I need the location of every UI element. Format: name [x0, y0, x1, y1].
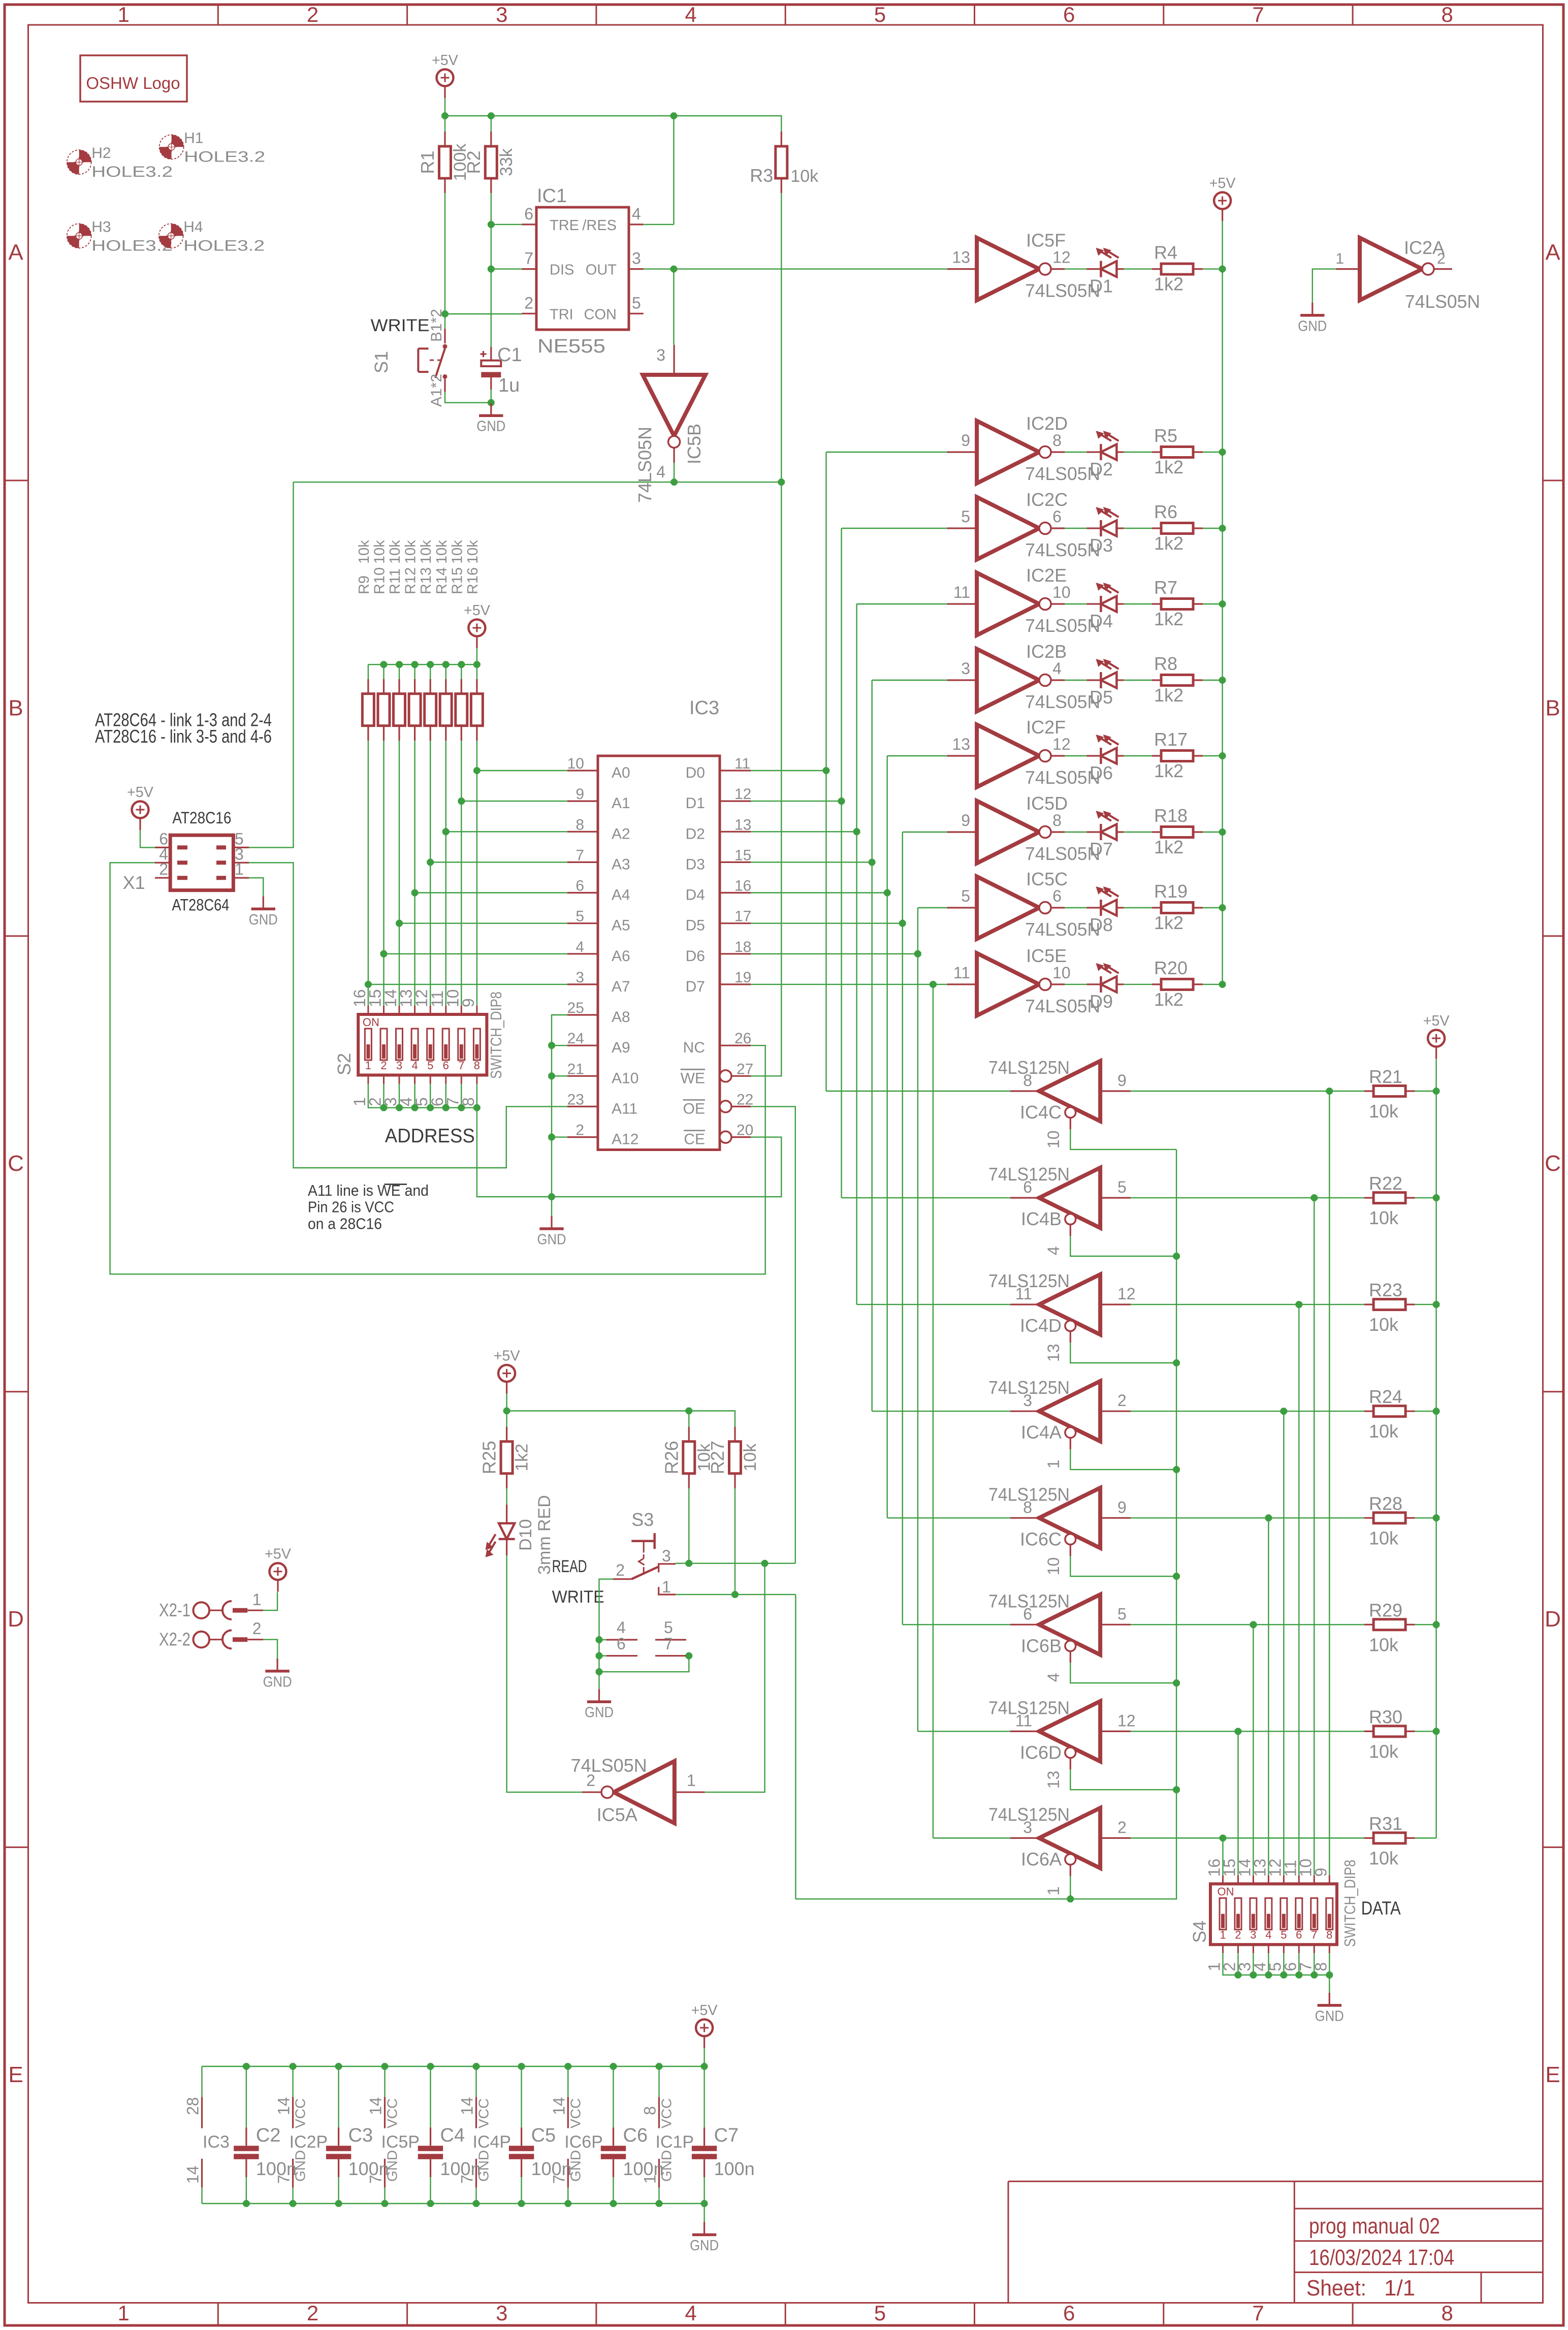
wire R22 to +5V rail — [1415, 1197, 1436, 1198]
wire IC2C input from data bus — [842, 528, 947, 529]
wire D2 net — [751, 604, 857, 1304]
junction rail R5 — [1219, 449, 1226, 456]
svg-text:9: 9 — [459, 998, 477, 1007]
svg-text:S4: S4 — [1189, 1921, 1210, 1943]
wire IC5C input from data bus — [918, 907, 947, 908]
svg-text:74LS125N: 74LS125N — [988, 1590, 1070, 1611]
svg-text:R10: R10 — [372, 567, 388, 594]
wire X1 pin1 to GND — [249, 878, 263, 896]
resistor R19 1k2 — [1152, 881, 1203, 933]
svg-text:5: 5 — [1281, 1929, 1287, 1941]
wire D6 to R17 to rail — [1065, 755, 1223, 756]
svg-text:3: 3 — [632, 249, 641, 268]
svg-text:A: A — [1545, 240, 1560, 265]
junction top C2 — [243, 2063, 250, 2070]
wire address column A3 — [430, 741, 567, 1006]
wire +5V bus R25 R26 R27 — [507, 1394, 735, 1427]
wire IC4A enable — [1070, 1449, 1176, 1470]
svg-text:IC2E: IC2E — [1026, 565, 1067, 586]
inverter IC2D 74LS05N — [947, 413, 1101, 484]
wire OUT net — [644, 268, 947, 269]
svg-text:1k2: 1k2 — [1154, 760, 1183, 781]
svg-text:10k: 10k — [1369, 1848, 1399, 1869]
svg-text:GND: GND — [263, 1674, 292, 1690]
svg-text:74LS05N: 74LS05N — [1025, 615, 1100, 636]
hole H1 — [159, 130, 265, 165]
wire C1 to GND — [491, 390, 492, 403]
svg-text:R15: R15 — [449, 567, 465, 594]
switch S4 SWITCH_DIP8 DATA — [1189, 1859, 1359, 1971]
wire R23 to +5V rail — [1415, 1304, 1436, 1305]
svg-text:13: 13 — [1044, 1771, 1063, 1789]
junction bottom C5 — [518, 2200, 525, 2207]
svg-text:10k: 10k — [372, 540, 388, 564]
wire IC2F input from data bus — [887, 755, 947, 756]
svg-text:2: 2 — [252, 1619, 262, 1638]
svg-text:74LS05N: 74LS05N — [634, 427, 655, 503]
svg-text:10k: 10k — [465, 540, 481, 564]
junction D5 — [899, 920, 906, 927]
LED D8 — [1086, 886, 1124, 935]
junction D0 — [823, 767, 830, 774]
svg-text:OUT: OUT — [586, 262, 617, 278]
svg-text:A: A — [8, 240, 23, 265]
svg-text:4: 4 — [1044, 1673, 1063, 1682]
svg-text:5: 5 — [427, 1059, 433, 1072]
wire S4 column 11 — [1253, 1624, 1254, 1875]
junction S2 bottom — [380, 1104, 388, 1111]
ground below IC3 — [537, 1197, 566, 1248]
wire IC6A input net — [1131, 1837, 1364, 1838]
svg-text:10k: 10k — [790, 167, 819, 186]
svg-text:IC6A: IC6A — [1021, 1849, 1062, 1870]
ground at X2 — [263, 1654, 292, 1690]
switch S1 WRITE — [371, 309, 447, 407]
resistor R20 1k2 — [1152, 957, 1203, 1010]
junction rail R24 — [1433, 1408, 1440, 1415]
wire R29 to +5V rail — [1415, 1624, 1436, 1625]
buffer IC4C 74LS125N — [988, 1057, 1131, 1148]
svg-text:H2: H2 — [91, 145, 111, 162]
junction rail R20 — [1219, 981, 1226, 988]
svg-text:IC1: IC1 — [537, 185, 567, 207]
svg-text:10k: 10k — [1369, 1421, 1399, 1442]
svg-text:1k2: 1k2 — [1154, 837, 1183, 857]
wire D1 to R4 to rail — [1065, 268, 1223, 269]
svg-text:8: 8 — [1326, 1929, 1332, 1941]
svg-text:3: 3 — [496, 2301, 507, 2325]
buffer IC6C 74LS125N — [988, 1484, 1131, 1575]
svg-text:7: 7 — [664, 1635, 673, 1653]
svg-text:3mm RED: 3mm RED — [535, 1495, 554, 1575]
svg-text:6: 6 — [1063, 3, 1075, 26]
junction R26/S3 — [686, 1560, 693, 1567]
junction at R1 top — [441, 112, 449, 119]
wire IC5A input to S3 pin3 net — [705, 1563, 765, 1793]
svg-text:IC6C: IC6C — [1020, 1528, 1062, 1549]
svg-text:16/03/2024 17:04: 16/03/2024 17:04 — [1309, 2245, 1454, 2270]
svg-text:74LS125N: 74LS125N — [988, 1804, 1070, 1825]
svg-text:7: 7 — [1252, 3, 1264, 26]
wire S4 column 16 — [1329, 1091, 1330, 1875]
wire +5V bus to R1 R2 R3 — [445, 98, 781, 225]
svg-text:GND: GND — [690, 2238, 719, 2254]
svg-text:10k: 10k — [1369, 1634, 1399, 1655]
svg-text:10k: 10k — [741, 1443, 760, 1472]
svg-text:R8: R8 — [1154, 653, 1177, 674]
wire OUT down to IC5B — [673, 269, 674, 345]
junction S4 bottom — [1296, 1971, 1303, 1978]
svg-text:2: 2 — [307, 3, 318, 26]
svg-text:19: 19 — [734, 969, 751, 986]
junction S4 bottom — [1265, 1971, 1272, 1978]
svg-text:R3: R3 — [750, 165, 773, 186]
wire TRI pin — [445, 313, 522, 314]
junction rail R18 — [1219, 828, 1226, 836]
junction A1 tap — [458, 797, 465, 805]
svg-text:R14: R14 — [434, 567, 450, 594]
junction bottom IC2P — [290, 2200, 297, 2207]
junction rail R21 — [1433, 1088, 1440, 1095]
wire IC6B enable — [1070, 1663, 1176, 1683]
svg-text:IC5B: IC5B — [684, 424, 705, 464]
wire IC6B input net — [1131, 1624, 1364, 1625]
junction S4 bottom — [1281, 1971, 1288, 1978]
power pins IC3 28/14 — [184, 2066, 230, 2204]
svg-text:13: 13 — [952, 248, 971, 267]
svg-text:C4: C4 — [440, 2125, 465, 2146]
svg-text:D4: D4 — [1090, 611, 1113, 631]
svg-text:100n: 100n — [623, 2158, 664, 2179]
junction rail R29 — [1433, 1621, 1440, 1629]
junction S4 tap IC6A — [1220, 1835, 1227, 1842]
svg-text:+5V: +5V — [464, 602, 491, 619]
svg-text:12: 12 — [1052, 248, 1071, 267]
svg-text:22: 22 — [737, 1091, 753, 1108]
wire WE drop to IC3 pin 27 — [751, 482, 781, 1076]
inverter IC5E 74LS05N — [947, 945, 1101, 1016]
junction IC6A enable — [1067, 1896, 1074, 1903]
resistor R31 10k — [1364, 1813, 1415, 1869]
svg-text:18: 18 — [734, 939, 751, 955]
svg-text:SWITCH_DIP8: SWITCH_DIP8 — [487, 992, 505, 1079]
junction bottom IC6P — [565, 2200, 572, 2207]
svg-text:IC2P: IC2P — [290, 2132, 328, 2152]
wire IC2B input from data bus — [872, 680, 947, 681]
svg-text:9: 9 — [1117, 1498, 1127, 1516]
svg-text:A11 line is WE and: A11 line is WE and — [308, 1182, 429, 1199]
connector X2-1 — [159, 1590, 263, 1620]
svg-text:D7: D7 — [686, 978, 705, 995]
svg-text:2: 2 — [1235, 1929, 1241, 1941]
wire IC6B output to data bus — [903, 1624, 1010, 1625]
svg-text:4: 4 — [1052, 659, 1062, 678]
svg-text:R7: R7 — [1154, 577, 1177, 598]
svg-text:15: 15 — [734, 847, 751, 864]
buffer IC4D 74LS125N — [988, 1270, 1136, 1362]
svg-text:5: 5 — [961, 507, 970, 526]
svg-text:A5: A5 — [612, 917, 630, 934]
svg-text:R13: R13 — [418, 567, 434, 594]
svg-text:74LS05N: 74LS05N — [571, 1755, 647, 1776]
svg-text:100n: 100n — [714, 2158, 755, 2179]
svg-text:IC2F: IC2F — [1026, 717, 1066, 738]
svg-text:B1*2: B1*2 — [428, 309, 445, 342]
junction bottom IC1P — [656, 2200, 663, 2207]
LED D1 — [1086, 248, 1124, 297]
svg-text:VCC: VCC — [567, 2098, 583, 2128]
junction R26 top — [686, 1408, 693, 1415]
junction R25 top — [503, 1408, 510, 1415]
wire X1 pin5 to WRITE bus — [249, 482, 294, 847]
ground at X1 — [249, 896, 278, 928]
junction D1 — [838, 797, 845, 805]
svg-text:9: 9 — [575, 786, 584, 803]
power +5V LED rail — [1209, 175, 1236, 221]
resistor R28 10k — [1364, 1493, 1415, 1548]
svg-text:12: 12 — [734, 786, 751, 803]
hole H4 — [159, 218, 265, 254]
wire address column A7 — [368, 741, 567, 1006]
svg-text:9: 9 — [961, 431, 970, 450]
svg-text:A8: A8 — [612, 1009, 630, 1026]
jumper X1 AT28C16/AT28C64 link — [123, 809, 249, 914]
svg-text:IC5P: IC5P — [381, 2132, 420, 2152]
wire IC6A output to data bus — [933, 1837, 1010, 1838]
wire IC6D enable — [1070, 1769, 1176, 1790]
wire D3 net — [751, 680, 872, 1411]
wire IC6D input net — [1131, 1731, 1364, 1732]
junction Rnet top R16 — [473, 661, 481, 668]
power +5V at X1 — [127, 784, 154, 830]
wire IC5D input from data bus — [903, 832, 947, 833]
svg-text:HOLE3.2: HOLE3.2 — [91, 164, 173, 180]
svg-text:2: 2 — [524, 294, 533, 312]
svg-text:74LS125N: 74LS125N — [988, 1057, 1070, 1078]
wire S4 column 15 — [1314, 1198, 1315, 1875]
svg-text:10k: 10k — [387, 540, 403, 564]
svg-text:B: B — [1545, 695, 1560, 720]
junction top C5 — [518, 2063, 525, 2070]
resistor R30 10k — [1364, 1706, 1415, 1762]
svg-text:2: 2 — [1117, 1818, 1127, 1837]
inverter IC5B 74LS05N (pointing down) — [634, 345, 706, 503]
junction bottom C7 — [701, 2200, 708, 2207]
resistor R3 10k — [750, 132, 819, 193]
junction IC5B/bus — [670, 478, 678, 486]
svg-text:6: 6 — [1052, 507, 1062, 526]
junction enable bus — [1173, 1359, 1180, 1366]
wire decoupling bottom bus — [202, 2203, 705, 2204]
wire R31 to +5V rail — [1415, 1837, 1436, 1838]
junction R3/bus — [778, 478, 785, 486]
resistor R21 10k — [1364, 1066, 1415, 1122]
junction S4 tap IC6B — [1250, 1621, 1257, 1629]
svg-text:DATA: DATA — [1361, 1898, 1401, 1919]
connector X2-2 — [159, 1619, 263, 1650]
svg-text:R20: R20 — [1154, 957, 1188, 978]
junction Rnet top R12 — [411, 661, 419, 668]
junction Rnet top R11 — [396, 661, 403, 668]
junction enable bus — [1173, 1786, 1180, 1794]
wire D6 net — [751, 908, 918, 1731]
junction enable bus — [1173, 1679, 1180, 1686]
junction bottom C2 — [243, 2200, 250, 2207]
svg-text:GND: GND — [537, 1232, 566, 1248]
svg-text:74LS05N: 74LS05N — [1025, 691, 1100, 712]
svg-text:C: C — [1545, 1151, 1561, 1176]
svg-text:10k: 10k — [356, 540, 372, 564]
wire IC4D input net — [1131, 1304, 1364, 1305]
svg-text:3: 3 — [396, 1059, 402, 1072]
svg-text:AT28C64: AT28C64 — [172, 896, 229, 914]
svg-text:10k: 10k — [1369, 1207, 1399, 1228]
svg-text:28: 28 — [184, 2097, 202, 2115]
junction bottom IC4P — [473, 2200, 480, 2207]
svg-text:5: 5 — [632, 294, 641, 312]
junction enable bus — [1173, 1253, 1180, 1260]
svg-text:14: 14 — [458, 2097, 476, 2115]
wire S2 bottom bus — [368, 1084, 477, 1108]
svg-text:100n: 100n — [531, 2158, 572, 2179]
svg-text:5: 5 — [664, 1618, 673, 1637]
svg-text:A2: A2 — [612, 825, 630, 842]
svg-text:ON: ON — [363, 1016, 379, 1029]
junction S4 bottom — [1250, 1971, 1257, 1978]
junction S4 tap IC4A — [1281, 1408, 1288, 1415]
svg-text:6: 6 — [617, 1635, 626, 1653]
junction at R2 top — [488, 112, 495, 119]
junction Rnet top R14 — [442, 661, 450, 668]
svg-text:R16: R16 — [465, 567, 481, 594]
power +5V at R network — [464, 602, 491, 648]
svg-text:4: 4 — [1044, 1246, 1063, 1255]
svg-text:6: 6 — [1296, 1929, 1302, 1941]
wire address column A5 — [399, 741, 567, 1006]
svg-text:4: 4 — [685, 2301, 696, 2325]
junction rail R19 — [1219, 904, 1226, 911]
S3 jumper pins 4-7 — [606, 1618, 686, 1656]
junction A4 tap — [411, 889, 419, 897]
svg-text:6: 6 — [1063, 2301, 1075, 2325]
svg-text:4: 4 — [685, 3, 696, 26]
svg-text:14: 14 — [367, 2097, 385, 2115]
resistor R2 33k — [463, 132, 516, 193]
wire R3 down to bus — [781, 193, 782, 482]
svg-text:5: 5 — [575, 908, 584, 925]
svg-text:14: 14 — [184, 2165, 202, 2184]
svg-text:R12: R12 — [403, 567, 419, 594]
wire address column A6 — [384, 741, 568, 1006]
svg-text:3: 3 — [961, 659, 970, 678]
wire WRITE bus — [294, 482, 782, 483]
LED D4 — [1086, 583, 1124, 631]
power +5V supply P1 — [432, 52, 459, 98]
svg-text:74LS125N: 74LS125N — [988, 1484, 1070, 1505]
svg-text:74LS125N: 74LS125N — [988, 1164, 1070, 1185]
svg-text:X2-1: X2-1 — [159, 1600, 190, 1620]
svg-text:9: 9 — [961, 811, 970, 829]
svg-text:A1*2: A1*2 — [428, 374, 445, 407]
junction IC5A riser — [761, 1560, 769, 1567]
svg-text:A12: A12 — [612, 1131, 638, 1148]
resistor R8 1k2 — [1152, 653, 1203, 706]
svg-text:1k2: 1k2 — [1154, 912, 1183, 933]
junction GND net — [548, 1193, 555, 1200]
svg-text:8: 8 — [1052, 811, 1062, 829]
wire IC4B enable — [1070, 1236, 1176, 1256]
svg-text:1: 1 — [118, 2301, 130, 2325]
svg-text:11: 11 — [953, 583, 970, 601]
svg-text:IC2A: IC2A — [1404, 237, 1445, 258]
svg-text:D2: D2 — [1090, 459, 1113, 480]
svg-text:IC3: IC3 — [689, 697, 719, 719]
title sheet: 1/1 — [1306, 2276, 1415, 2301]
junction Rnet top R15 — [458, 661, 465, 668]
junction rail R30 — [1433, 1728, 1440, 1735]
svg-text:R1: R1 — [417, 150, 438, 174]
svg-text:C2: C2 — [256, 2125, 281, 2146]
LED D5 — [1086, 659, 1124, 708]
ground at IC2A — [1298, 303, 1327, 335]
svg-text:2: 2 — [1117, 1391, 1127, 1410]
resistor R5 1k2 — [1152, 425, 1203, 477]
note A11 WE text — [308, 1182, 429, 1232]
svg-text:C3: C3 — [348, 2125, 373, 2146]
svg-text:S2: S2 — [334, 1053, 355, 1075]
svg-text:E: E — [8, 2062, 23, 2087]
svg-text:4: 4 — [632, 205, 641, 223]
wire IC4C enable — [1070, 1129, 1176, 1150]
wire S4 column 13 — [1283, 1411, 1284, 1875]
ground below C7 — [690, 2204, 719, 2254]
power +5V at R25 — [494, 1348, 521, 1394]
switch S3 READ/WRITE — [613, 1509, 676, 1596]
svg-text:23: 23 — [567, 1091, 584, 1108]
svg-text:1k2: 1k2 — [1154, 989, 1183, 1010]
wire TRE pin — [491, 224, 522, 225]
svg-text:14: 14 — [275, 2097, 293, 2115]
svg-text:1/1: 1/1 — [1384, 2276, 1415, 2301]
svg-text:IC5D: IC5D — [1026, 793, 1068, 814]
junction A2 tap — [442, 828, 450, 835]
svg-text:10: 10 — [1044, 1130, 1063, 1148]
svg-text:10: 10 — [1052, 964, 1071, 982]
svg-text:DIS: DIS — [550, 262, 574, 278]
junction S3 pin6 — [596, 1652, 603, 1659]
svg-text:H3: H3 — [91, 218, 111, 235]
svg-text:S3: S3 — [631, 1509, 654, 1530]
switch S2 SWITCH_DIP8 ADDRESS — [334, 989, 505, 1106]
svg-text:ADDRESS: ADDRESS — [385, 1125, 475, 1147]
svg-text:AT28C16 - link 3-5 and 4-6: AT28C16 - link 3-5 and 4-6 — [95, 726, 272, 747]
wire A8-A12 tie — [552, 1015, 567, 1197]
junction D2 — [853, 828, 860, 835]
wire IC6C output to data bus — [887, 1517, 1010, 1518]
svg-text:10k: 10k — [418, 540, 434, 564]
junction A3 tap — [427, 859, 434, 866]
capacitor C1 1u electrolytic — [481, 344, 522, 396]
svg-text:ON: ON — [1218, 1886, 1234, 1898]
inverter IC5F 74LS05N — [947, 230, 1101, 301]
svg-text:1: 1 — [235, 860, 244, 878]
svg-text:1k2: 1k2 — [1154, 457, 1183, 477]
svg-text:C: C — [8, 1151, 24, 1176]
svg-text:IC5C: IC5C — [1026, 869, 1068, 889]
wire D4 net — [751, 756, 887, 1518]
junction at /RES riser — [670, 112, 678, 119]
wire NC pin26 to X1 pin4 loop — [110, 863, 765, 1274]
